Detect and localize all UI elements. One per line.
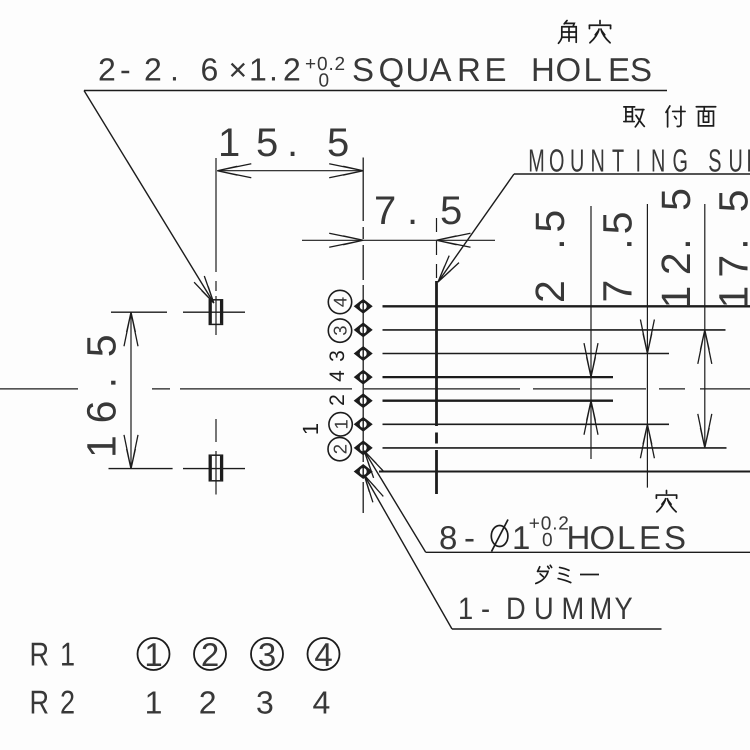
svg-text:2: 2 <box>201 636 219 673</box>
hole label circled 1 <box>329 413 352 436</box>
hole 3 <box>355 347 371 359</box>
row line 5 <box>383 400 614 402</box>
row line 2 <box>383 329 726 331</box>
hole label 1 (row R2) <box>298 423 323 435</box>
svg-text:1-DUMMY: 1-DUMMY <box>458 591 633 626</box>
svg-text:3: 3 <box>258 636 276 673</box>
legend circled 4 <box>308 638 340 670</box>
extension dashes above mounting line <box>436 218 438 281</box>
square hole upper <box>209 300 222 325</box>
svg-text:1: 1 <box>298 423 323 435</box>
hole label 3 <box>326 350 349 362</box>
kanji: toritsuke-men (mounting surface) <box>624 107 644 127</box>
hole label circled 2 <box>328 437 351 460</box>
row line 3 <box>383 353 670 355</box>
row line 1 <box>383 305 750 307</box>
leader to hole 7 <box>364 451 426 553</box>
legend circled 3 <box>251 638 283 670</box>
svg-text:2: 2 <box>329 444 350 454</box>
hole 2 <box>355 324 371 336</box>
svg-text:HOLES: HOLES <box>567 519 687 556</box>
phi symbol <box>491 526 508 547</box>
dim text 12.5 <box>653 188 699 309</box>
leader underline for SQUARE HOLES <box>84 90 667 92</box>
katakana: dami- (dummy) <box>536 565 552 583</box>
leader to hole 8 (dummy) <box>364 475 452 629</box>
hole label 2 <box>326 394 349 406</box>
svg-text:4: 4 <box>313 685 331 721</box>
hole column centerline <box>362 158 364 222</box>
dim 15.5 line with arrows <box>217 170 363 172</box>
svg-text:4: 4 <box>326 370 349 382</box>
legend circled 2 <box>194 638 226 670</box>
dim line B (7.5) <box>646 204 648 488</box>
hole 5 <box>355 395 371 407</box>
svg-text:1: 1 <box>330 419 351 429</box>
hole 4 <box>355 371 371 383</box>
svg-text:17.5: 17.5 <box>711 189 750 308</box>
dim 16.5 line with arrows <box>130 312 132 469</box>
horizontal centerline (dash-dot) <box>0 388 78 390</box>
svg-text:3: 3 <box>256 685 274 721</box>
svg-text:2: 2 <box>326 394 349 406</box>
row line 4 <box>383 376 614 378</box>
hole 6 <box>355 418 371 430</box>
underline 1-dummy <box>452 628 662 630</box>
svg-text:2: 2 <box>199 685 217 721</box>
dim text 7.5 <box>595 211 641 302</box>
center line of square holes <box>215 158 217 272</box>
row line 8 <box>379 471 750 473</box>
hole 8 <box>355 465 371 477</box>
dim 16.5 rotated text <box>79 334 125 458</box>
dim text 2.5 <box>527 210 573 303</box>
leader to upper square hole <box>84 91 214 304</box>
hole label 4 <box>326 370 349 382</box>
square hole lower <box>209 455 222 481</box>
row line 6 <box>383 423 670 425</box>
hole label circled 3 <box>328 319 351 342</box>
object line top (left of sq hole) <box>111 311 167 313</box>
dim line C (12.5) <box>704 204 706 448</box>
dim line A (2.5) <box>590 206 592 459</box>
hole label circled 4 <box>328 290 351 313</box>
hole 1 <box>355 300 371 312</box>
leader underline MOUNTING SURFACE <box>514 173 750 175</box>
svg-text:3: 3 <box>326 350 349 362</box>
leader to mounting surface line <box>438 174 514 282</box>
svg-text:4: 4 <box>314 636 332 673</box>
svg-text:4: 4 <box>330 297 351 307</box>
hole 7 <box>355 442 371 454</box>
kanji: kaku-ana (square hole) <box>558 20 576 43</box>
svg-text:12.5: 12.5 <box>653 188 699 309</box>
svg-text:3: 3 <box>330 325 351 335</box>
kanji: ana (hole) <box>656 490 676 511</box>
svg-text:1: 1 <box>145 685 163 721</box>
mounting surface line <box>435 281 438 426</box>
dim text 17.5 <box>711 189 750 308</box>
svg-text:1: 1 <box>144 636 162 673</box>
svg-text:0: 0 <box>319 71 330 92</box>
legend circled 1 <box>138 638 170 670</box>
underline 8-holes <box>426 551 750 553</box>
row line 7 <box>383 447 727 449</box>
svg-text:0: 0 <box>542 530 553 551</box>
object line bottom <box>109 468 173 470</box>
dim 7.5 line, outside arrows <box>302 239 495 241</box>
